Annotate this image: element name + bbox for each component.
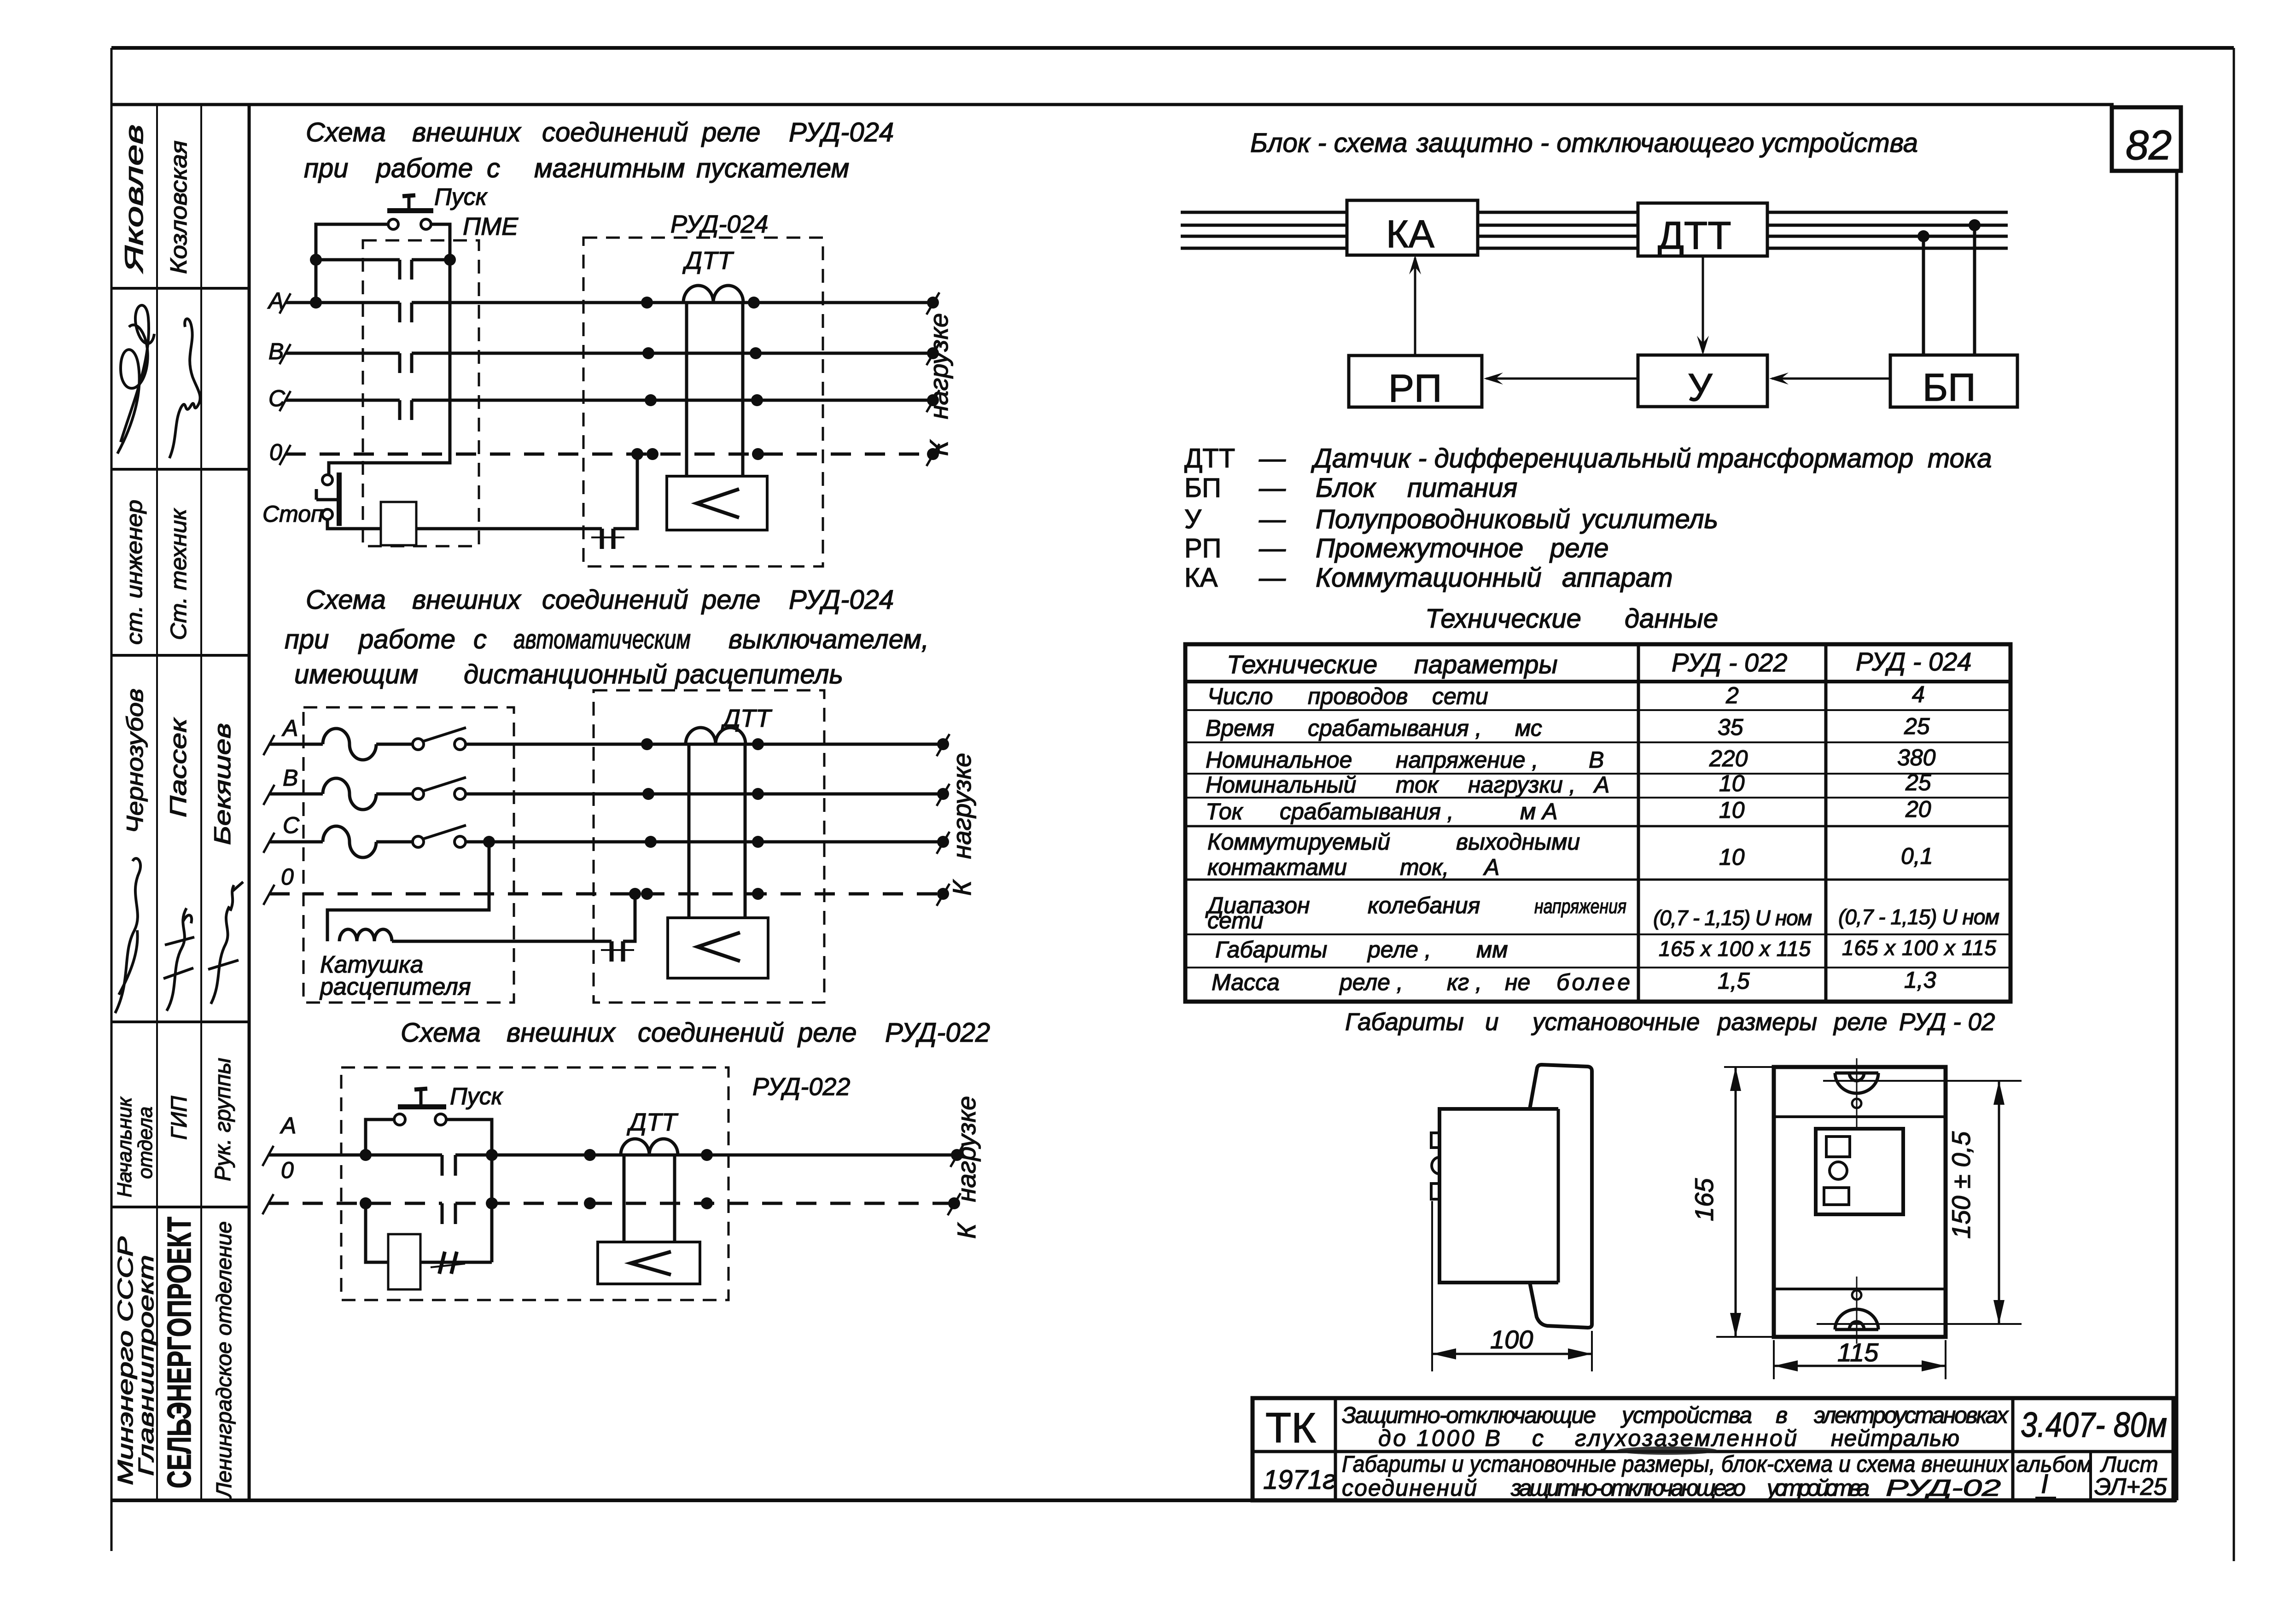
node C-left of ДТТ <box>645 394 657 406</box>
svg-text:более: более <box>1556 969 1630 995</box>
table row line 7 <box>1185 879 2010 881</box>
neutral line 0 <box>269 439 939 466</box>
block РП <box>1349 356 1482 410</box>
svg-text:с: с <box>1532 1425 1544 1451</box>
svg-text:0: 0 <box>281 1157 294 1183</box>
bus line 4 <box>1181 247 2008 250</box>
svg-text:С: С <box>268 385 286 411</box>
svg-text:380: 380 <box>1897 745 1936 770</box>
svg-text:РУД - 022: РУД - 022 <box>1672 648 1787 677</box>
svg-text:165: 165 <box>1690 1178 1719 1221</box>
svg-text:РП: РП <box>1388 367 1442 410</box>
svg-text:кг ,: кг , <box>1447 969 1482 995</box>
svg-text:реле: реле <box>1549 533 1609 563</box>
breaker switch contact phase A <box>376 728 466 750</box>
phase line A (schematic 2) <box>263 715 950 756</box>
wire Стоп to contactor coil <box>327 519 381 529</box>
junction node 0 tap left <box>360 1197 372 1209</box>
svg-text:—: — <box>1259 504 1286 534</box>
junction node on neutral 0 <box>631 448 643 460</box>
relay output contact stubs phase A <box>442 1155 455 1176</box>
signature 2 <box>169 319 200 458</box>
svg-text:ток: ток <box>1396 772 1439 798</box>
node 0-right of ДТТ (s3) <box>701 1197 713 1209</box>
svg-text:внешних: внешних <box>412 585 522 615</box>
svg-text:внешних: внешних <box>412 117 522 147</box>
wire coil to terminal clamp <box>416 527 602 531</box>
svg-text:выключателем,: выключателем, <box>728 624 929 654</box>
svg-text:проводов: проводов <box>1308 683 1408 709</box>
svg-text:и: и <box>1485 1009 1498 1036</box>
cell Лист ЭЛ+25 <box>2094 1452 2168 1500</box>
svg-text:РУД-024: РУД-024 <box>789 585 894 615</box>
svg-text:с: с <box>487 153 500 183</box>
svg-text:КА: КА <box>1386 212 1434 256</box>
svg-text:БП: БП <box>1184 473 1221 503</box>
legend ДТТ <box>1184 443 1992 473</box>
wire clamp to neutral (schematic 2) <box>623 894 635 941</box>
svg-text:(0,7 - 1,15) U ном: (0,7 - 1,15) U ном <box>1653 906 1812 930</box>
svg-text:Яковлев: Яковлев <box>119 124 148 274</box>
svg-text:А: А <box>1593 772 1609 798</box>
svg-text:ДТТ: ДТТ <box>1184 443 1235 473</box>
svg-text:устройства: устройства <box>1766 1475 1870 1501</box>
svg-text:РУД - 024: РУД - 024 <box>1856 647 1971 676</box>
svg-text:имеющим: имеющим <box>294 659 418 689</box>
svg-text:ДТТ: ДТТ <box>1658 214 1731 257</box>
svg-text:35: 35 <box>1718 714 1743 740</box>
svg-text:срабатывания ,: срабатывания , <box>1308 715 1482 741</box>
svg-text:установочные: установочные <box>1531 1009 1700 1036</box>
title block row divider <box>1253 1450 2174 1453</box>
svg-text:А: А <box>1483 854 1499 880</box>
front view bottom mounting lug <box>1835 1277 1878 1344</box>
svg-text:аппарат: аппарат <box>1562 563 1673 593</box>
svg-text:10: 10 <box>1719 844 1745 870</box>
svg-text:82: 82 <box>2126 122 2172 169</box>
current transformer ДТТ <box>682 247 743 477</box>
bus line 3 <box>1181 235 2008 238</box>
table outer border <box>1185 644 2010 1002</box>
current transformer ДТТ (schematic 2) <box>686 705 773 919</box>
title strip column separator 1 <box>156 105 158 1500</box>
title strip row divider 5 <box>111 1206 249 1208</box>
cell project name <box>1342 1402 2009 1451</box>
svg-text:соединений: соединений <box>542 117 688 147</box>
arrow РП to КА <box>1409 255 1421 356</box>
svg-text:Ленинградское отделение: Ленинградское отделение <box>212 1221 236 1499</box>
svg-text:КА: КА <box>1184 563 1218 593</box>
svg-text:С: С <box>283 812 300 838</box>
title strip row divider 2 <box>111 468 249 471</box>
svg-text:Номинальное: Номинальное <box>1206 747 1352 773</box>
schematic 1 title line 2 <box>304 153 849 183</box>
svg-text:расцепитель: расцепитель <box>674 659 843 689</box>
svg-text:ДТТ: ДТТ <box>627 1108 679 1136</box>
wire bus to БП left <box>1922 236 1925 356</box>
junction node bridge-left <box>310 254 322 266</box>
phase line C <box>268 385 939 412</box>
dimension 150 plus-minus 0,5 <box>1817 1081 2022 1324</box>
push button SB1 Пуск (schematic 3) <box>394 1083 504 1125</box>
node 0-left of ДТТ (s3) <box>584 1197 596 1209</box>
dimension 165 <box>1690 1067 1774 1337</box>
svg-text:при: при <box>304 153 348 183</box>
svg-text:Главниипроект: Главниипроект <box>134 1255 158 1476</box>
svg-text:колебания: колебания <box>1368 892 1480 918</box>
junction node C tap <box>483 836 495 848</box>
svg-text:Технические: Технические <box>1425 604 1581 634</box>
svg-text:Схема: Схема <box>306 117 386 147</box>
table row line 3 <box>1185 741 2010 743</box>
svg-text:115: 115 <box>1837 1338 1879 1367</box>
wire coil to clamp (schematic 3) <box>420 1261 492 1264</box>
svg-text:устройства: устройства <box>1620 1402 1752 1428</box>
relay element box K1 (schematic 2) <box>668 918 768 978</box>
svg-text:реле ,: реле , <box>1367 937 1431 962</box>
svg-text:3.407- 80м: 3.407- 80м <box>2021 1405 2167 1445</box>
svg-text:К нагрузке: К нагрузке <box>924 313 953 456</box>
svg-text:Технические: Технические <box>1227 650 1377 679</box>
svg-text:Номинальный: Номинальный <box>1206 772 1356 798</box>
title block column ТК <box>1334 1398 1337 1500</box>
junction node bus-БП left <box>1917 230 1929 242</box>
svg-text:Пуск: Пуск <box>450 1083 504 1110</box>
svg-text:питания: питания <box>1407 473 1517 503</box>
arrow У to РП <box>1484 373 1638 385</box>
sheet number box 82 <box>2112 107 2181 171</box>
wire from Пуск left contact to phase A <box>316 224 388 303</box>
svg-text:Коммутационный: Коммутационный <box>1316 563 1542 593</box>
svg-text:150 ± 0,5: 150 ± 0,5 <box>1946 1131 1975 1239</box>
svg-text:I: I <box>2041 1469 2048 1499</box>
table row Номинальный ток нагрузки <box>1206 770 1931 798</box>
svg-text:—: — <box>1259 533 1286 563</box>
table header divider <box>1185 680 2010 683</box>
circuit breaker dashed outline <box>303 707 514 1003</box>
wire C tap down to trip coil <box>327 842 489 941</box>
table row Время срабатывания <box>1206 713 1930 741</box>
svg-text:реле: реле <box>701 117 761 147</box>
junction node 0 crossing <box>486 1197 498 1209</box>
svg-text:—: — <box>1259 563 1286 593</box>
svg-text:устройства: устройства <box>1759 128 1918 158</box>
svg-text:Масса: Масса <box>1212 969 1280 995</box>
node A-left of ДТТ (s3) <box>584 1149 596 1161</box>
svg-text:К нагрузке: К нагрузке <box>952 1096 981 1239</box>
svg-text:реле: реле <box>701 585 761 615</box>
terminal clamp symbol X3 <box>431 1252 465 1274</box>
relay output contact stubs neutral <box>442 1203 455 1224</box>
inner top frame line <box>111 103 2114 106</box>
svg-text:20: 20 <box>1905 796 1931 822</box>
phase line C (schematic 2) <box>263 812 950 854</box>
contactor coil KM1 box <box>381 502 416 545</box>
svg-text:Козловская: Козловская <box>166 140 192 274</box>
table column line 1 <box>1637 644 1640 1002</box>
svg-text:до 1000 В: до 1000 В <box>1378 1425 1500 1451</box>
breaker thermal element phase C <box>323 826 376 857</box>
svg-text:альбом: альбом <box>2016 1452 2092 1477</box>
svg-text:напряжение ,: напряжение , <box>1396 747 1538 773</box>
svg-text:Габариты и установочные размер: Габариты и установочные размеры, блок-сх… <box>1342 1451 2009 1477</box>
wire 0 tap down to coil <box>366 1203 388 1262</box>
svg-text:тока: тока <box>1928 443 1992 473</box>
svg-text:Промежуточное: Промежуточное <box>1316 533 1523 563</box>
terminal clamp symbol X1 <box>591 529 624 549</box>
title strip row divider 4 <box>111 1020 249 1023</box>
dimension 115 <box>1774 1338 1946 1379</box>
svg-text:в: в <box>1776 1402 1788 1428</box>
svg-text:соединений: соединений <box>542 585 688 615</box>
svg-text:4: 4 <box>1912 682 1925 707</box>
arrow ДТТ to У <box>1697 256 1709 355</box>
svg-text:У: У <box>1688 366 1713 409</box>
table row Число проводов сети <box>1207 682 1925 709</box>
svg-text:Рук. группы: Рук. группы <box>211 1058 235 1181</box>
svg-text:усилитель: усилитель <box>1579 504 1718 534</box>
front view relay outline <box>1774 1067 1946 1337</box>
svg-text:РП: РП <box>1184 533 1221 563</box>
table row line 2 <box>1185 709 2010 711</box>
svg-text:параметры: параметры <box>1414 650 1558 679</box>
title block outer border <box>1253 1398 2174 1500</box>
svg-text:м А: м А <box>1520 799 1558 824</box>
node A-right of ДТТ (s3) <box>701 1149 713 1161</box>
svg-text:Схема: Схема <box>306 585 386 615</box>
breaker thermal element phase A <box>323 729 376 760</box>
svg-text:не: не <box>1505 969 1530 995</box>
schematic 1 title line 1 <box>306 117 894 147</box>
svg-text:Блок: Блок <box>1316 473 1377 503</box>
svg-text:сети: сети <box>1432 683 1488 709</box>
title block column right <box>2011 1398 2015 1500</box>
bus line 2 <box>1181 224 2008 227</box>
svg-text:220: 220 <box>1709 746 1748 771</box>
legend КА <box>1184 563 1673 593</box>
table row Диапазон колебания напряжения сети <box>1205 892 1999 933</box>
schematic 2 title line 2 <box>285 624 929 654</box>
svg-text:ДТТ: ДТТ <box>682 247 734 274</box>
svg-text:сети: сети <box>1207 908 1264 933</box>
table row line 4 <box>1185 773 2010 775</box>
bus line 1 <box>1181 211 2008 214</box>
block ДТТ <box>1638 203 1767 257</box>
svg-text:трансформатор: трансформатор <box>1697 443 1913 473</box>
svg-text:У: У <box>1184 504 1202 534</box>
svg-text:2: 2 <box>1725 682 1739 708</box>
relay coil box (schematic 3) <box>388 1234 420 1289</box>
svg-text:мм: мм <box>1476 937 1508 962</box>
svg-text:напряжения: напряжения <box>1534 895 1626 918</box>
svg-text:0,1: 0,1 <box>1901 843 1933 869</box>
contactor KM1 main contact stubs phase B <box>400 353 412 373</box>
wire Пуск right contact to drop <box>446 1120 492 1262</box>
svg-text:соединений: соединений <box>1342 1475 1477 1501</box>
junction node A tap left <box>360 1149 372 1161</box>
signature 1 <box>117 305 154 454</box>
svg-text:автоматическим: автоматическим <box>513 624 691 654</box>
svg-text:РУД-024: РУД-024 <box>789 117 894 147</box>
wire trip coil to clamp <box>392 940 612 943</box>
svg-text:работе: работе <box>358 624 455 654</box>
svg-text:защитно-отключающего: защитно-отключающего <box>1510 1475 1746 1501</box>
svg-text:А: А <box>281 715 298 741</box>
svg-text:165 х 100 х 115: 165 х 100 х 115 <box>1842 936 1996 960</box>
signature 3 <box>115 858 140 1013</box>
svg-text:работе: работе <box>375 153 473 183</box>
relay РУД-024 dashed outline <box>583 210 823 566</box>
svg-text:100: 100 <box>1490 1325 1533 1354</box>
junction node on neutral (schematic 2) <box>629 888 641 900</box>
table row Номинальное напряжение <box>1206 745 1936 773</box>
stop button SB2 Стоп <box>262 472 342 527</box>
svg-text:ТК: ТК <box>1265 1405 1316 1452</box>
svg-text:Ток: Ток <box>1206 799 1244 824</box>
svg-text:1,3: 1,3 <box>1904 967 1936 993</box>
svg-text:РУД - 02: РУД - 02 <box>1899 1009 1995 1036</box>
svg-text:—: — <box>1259 473 1286 503</box>
side view mounting tabs <box>1431 1133 1439 1199</box>
wire clamp to neutral node <box>613 454 637 529</box>
svg-text:нагрузки ,: нагрузки , <box>1468 772 1576 798</box>
svg-text:Блок - схема: Блок - схема <box>1250 128 1407 158</box>
title strip row divider 1 <box>111 287 249 290</box>
node B-right of ДТТ <box>750 347 762 359</box>
bottom frame line <box>111 1499 2177 1502</box>
svg-text:реле: реле <box>1833 1009 1888 1036</box>
cell sheet description <box>1342 1451 2009 1501</box>
table column line 2 <box>1824 644 1828 1002</box>
phase line A (schematic 3) <box>262 1113 963 1167</box>
block У <box>1638 355 1767 409</box>
svg-text:РУД-024: РУД-024 <box>670 210 768 238</box>
schematic 2 title line 3 <box>294 659 843 689</box>
node 0-right of ДТТ <box>752 448 764 460</box>
front view terminal window <box>1816 1129 1903 1214</box>
breaker switch contact phase C <box>376 825 466 847</box>
legend У <box>1184 504 1718 534</box>
outer right border line <box>2233 48 2235 1561</box>
svg-text:защитно - отключающего: защитно - отключающего <box>1416 128 1754 158</box>
cell альбом I <box>2016 1452 2092 1499</box>
outer top border line <box>111 46 2234 50</box>
node C-left of ДТТ (s2) <box>645 836 657 848</box>
svg-text:Габариты: Габариты <box>1215 937 1327 962</box>
inner right frame line <box>2175 171 2179 1500</box>
svg-text:10: 10 <box>1719 770 1745 796</box>
svg-text:размеры: размеры <box>1717 1009 1817 1036</box>
node A-right of ДТТ <box>748 297 760 309</box>
breaker thermal element phase B <box>323 778 376 810</box>
node B-left of ДТТ (s2) <box>642 788 654 800</box>
contactor KM1 aux contact stubs <box>400 260 412 280</box>
table row line 5 <box>1185 797 2010 799</box>
svg-text:Время: Время <box>1206 715 1274 741</box>
terminal clamp symbol X2 <box>601 941 634 962</box>
svg-text:Чернозубов: Чернозубов <box>122 688 148 834</box>
svg-text:1,5: 1,5 <box>1718 968 1750 994</box>
svg-text:внешних: внешних <box>507 1018 616 1048</box>
phase line B (schematic 2) <box>263 765 950 806</box>
junction node bus-БП right <box>1969 219 1981 231</box>
svg-text:ПМЕ: ПМЕ <box>463 213 519 240</box>
svg-text:Датчик - дифференциальный: Датчик - дифференциальный <box>1311 443 1691 473</box>
node B-left of ДТТ <box>642 347 654 359</box>
block БП <box>1890 355 2017 409</box>
svg-text:В: В <box>1589 747 1604 773</box>
trip coil Катушка расцепителя <box>319 929 471 1000</box>
neutral line 0 (schematic 3) <box>262 1157 961 1215</box>
table row Ток срабатывания <box>1206 796 1931 824</box>
svg-text:БП: БП <box>1923 366 1976 409</box>
svg-text:А: А <box>280 1113 296 1138</box>
current transformer ДТТ (schematic 3) <box>621 1108 679 1243</box>
svg-text:0: 0 <box>281 864 294 890</box>
contactor KM1 main contact stubs phase A <box>400 303 412 322</box>
svg-text:Бекяшев: Бекяшев <box>210 723 235 845</box>
legend БП <box>1184 473 1517 503</box>
svg-text:ЭЛ+25: ЭЛ+25 <box>2094 1474 2168 1500</box>
table row Габариты реле <box>1215 936 1996 962</box>
svg-text:Ст. техник: Ст. техник <box>167 507 191 640</box>
svg-text:К нагрузке: К нагрузке <box>947 753 976 896</box>
block diagram title <box>1250 128 1918 158</box>
auxiliary bridge wire KM1 <box>316 258 450 262</box>
smudge artifact <box>1616 1446 1718 1455</box>
svg-text:нейтралью: нейтралью <box>1831 1425 1959 1451</box>
breaker switch contact phase B <box>376 777 466 799</box>
wire bus to БП right <box>1973 225 1976 356</box>
svg-text:Габариты: Габариты <box>1345 1009 1464 1036</box>
phase line A <box>267 288 939 315</box>
node 0-right of ДТТ (s2) <box>752 888 764 900</box>
svg-text:Начальник: Начальник <box>113 1096 136 1197</box>
svg-text:отдела: отдела <box>134 1107 157 1179</box>
svg-text:165 х 100 х 115: 165 х 100 х 115 <box>1659 937 1811 961</box>
svg-text:Защитно-отключающие: Защитно-отключающие <box>1342 1402 1596 1428</box>
svg-text:реле: реле <box>797 1018 857 1048</box>
svg-text:Схема: Схема <box>401 1018 481 1048</box>
neutral line 0 (schematic 2) <box>263 864 950 906</box>
svg-text:мс: мс <box>1515 715 1542 741</box>
svg-text:электроустановках: электроустановках <box>1814 1402 2009 1428</box>
svg-text:контактами: контактами <box>1207 854 1347 880</box>
signature 4 <box>163 908 194 1011</box>
svg-text:соединений: соединений <box>638 1018 784 1048</box>
svg-text:магнитным: магнитным <box>534 153 685 183</box>
push button SB1 Пуск <box>387 184 488 229</box>
svg-text:РУД-02: РУД-02 <box>1886 1475 2001 1501</box>
wire from Пуск right contact down to Стоп branch <box>329 224 450 475</box>
schematic 3 title <box>401 1018 990 1048</box>
legend РП <box>1184 533 1609 563</box>
schematic 2 title line 1 <box>306 585 894 615</box>
node B-right of ДТТ (s2) <box>752 788 764 800</box>
svg-text:ГИП: ГИП <box>167 1096 192 1140</box>
node C-right of ДТТ (s2) <box>752 836 764 848</box>
svg-text:ток,: ток, <box>1400 854 1449 880</box>
contactor ПМЕ dashed outline <box>363 213 519 546</box>
title strip row divider 3 <box>111 654 249 657</box>
table row line 9 <box>1185 967 2010 968</box>
outer left border line <box>111 48 113 1551</box>
title block column Лист <box>2089 1452 2092 1500</box>
node 0-left of ДТТ (s2) <box>641 888 653 900</box>
table row line 8 <box>1185 933 2010 935</box>
phase line B <box>268 338 939 365</box>
svg-text:ст. инженер: ст. инженер <box>122 500 147 645</box>
